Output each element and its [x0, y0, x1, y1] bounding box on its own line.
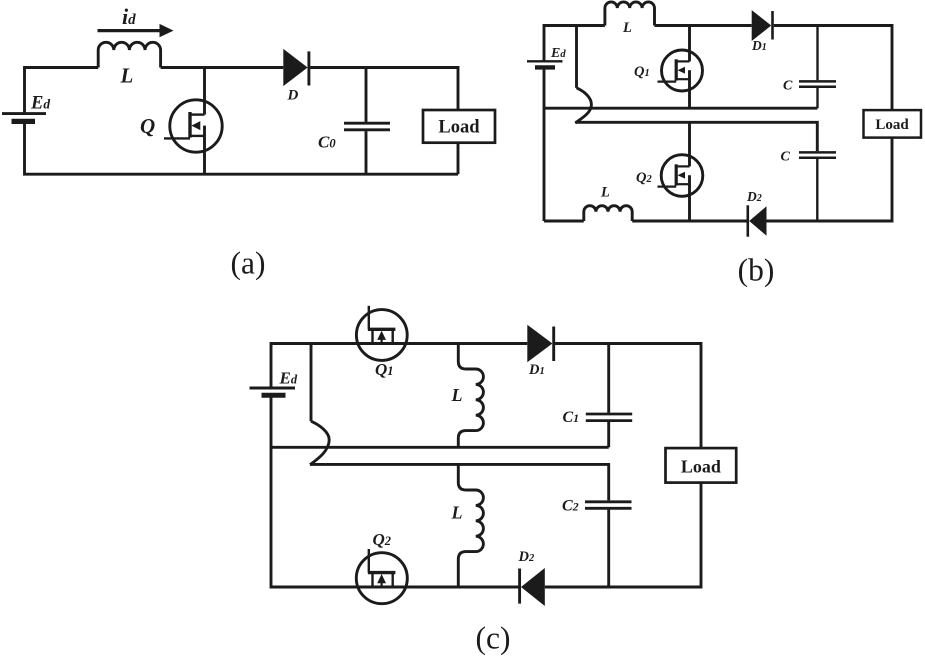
current arrow id A	[98, 24, 174, 37]
wire load-bottom A	[457, 143, 460, 175]
wire top-left C	[271, 344, 527, 387]
svg-text:Q: Q	[140, 114, 155, 138]
wire bottom-left B	[544, 220, 584, 223]
svg-text:L: L	[120, 64, 134, 88]
inductor L top C	[458, 344, 483, 448]
capacitor C1	[586, 344, 632, 448]
hop wire vertical B	[575, 26, 578, 88]
svg-text:(a): (a)	[231, 246, 266, 281]
svg-text:Load: Load	[875, 117, 909, 133]
hop curve C	[310, 421, 329, 465]
load box A	[423, 110, 495, 143]
svg-text:D: D	[287, 88, 299, 104]
mosfet Q2 B	[658, 122, 703, 221]
inductor L top B	[605, 2, 655, 26]
diode D A	[283, 49, 309, 86]
svg-text:(c): (c)	[476, 621, 511, 656]
mosfet Q1 C	[356, 306, 407, 361]
wire top-right A	[310, 68, 458, 111]
capacitor C top B	[799, 26, 836, 109]
diode D2 C	[520, 568, 545, 606]
wire left B	[543, 70, 546, 222]
mid bus upper B	[544, 107, 818, 110]
mosfet Q2 C	[356, 549, 407, 604]
svg-text:L: L	[622, 20, 632, 36]
load box B	[864, 110, 922, 138]
svg-text:L: L	[451, 385, 463, 405]
wire bottom-right B	[767, 138, 893, 221]
diode D2 B	[748, 205, 767, 236]
svg-text:C1: C1	[563, 409, 580, 426]
wire bottom-right C	[545, 483, 701, 587]
svg-text:C: C	[783, 79, 793, 94]
hop wire vertical C	[310, 344, 313, 422]
wire top-right C	[555, 344, 701, 449]
wire top-mid A	[161, 66, 284, 69]
diode D1 B	[752, 10, 773, 41]
load box C	[666, 448, 737, 483]
svg-text:L: L	[451, 503, 463, 523]
diode D1 C	[527, 325, 553, 363]
svg-text:Ed: Ed	[550, 46, 566, 61]
capacitor C0 A	[344, 68, 390, 175]
battery Ed A	[2, 114, 46, 122]
battery Ed B	[527, 61, 563, 67]
svg-text:Load: Load	[681, 457, 721, 477]
wire top-right B	[774, 26, 892, 111]
mosfet Q1=Q A	[164, 68, 222, 175]
wire bottom-mid B	[632, 220, 748, 223]
wire top-left B	[544, 26, 605, 61]
hop curve B	[575, 88, 591, 123]
inductor L A	[98, 42, 160, 67]
mid bus lower C	[310, 464, 609, 500]
svg-text:Ed: Ed	[30, 94, 50, 114]
svg-text:(b): (b)	[738, 253, 775, 288]
svg-text:C2: C2	[562, 497, 579, 514]
battery Ed C	[250, 388, 296, 395]
inductor L bottom C	[458, 464, 483, 587]
svg-text:C: C	[781, 150, 791, 165]
inductor L bottom B	[584, 206, 632, 221]
wire left-bottom C	[271, 398, 520, 588]
mid bus lower B	[575, 122, 817, 151]
mosfet Q1 B	[658, 26, 703, 109]
wire left-bottom A	[25, 123, 459, 174]
svg-text:Load: Load	[438, 117, 480, 137]
wire top-left A	[25, 68, 99, 114]
svg-text:L: L	[600, 185, 610, 201]
mid bus upper C	[271, 446, 609, 449]
capacitor C2	[585, 502, 632, 587]
wire top-mid B	[655, 24, 752, 27]
capacitor C bottom B	[799, 152, 836, 221]
